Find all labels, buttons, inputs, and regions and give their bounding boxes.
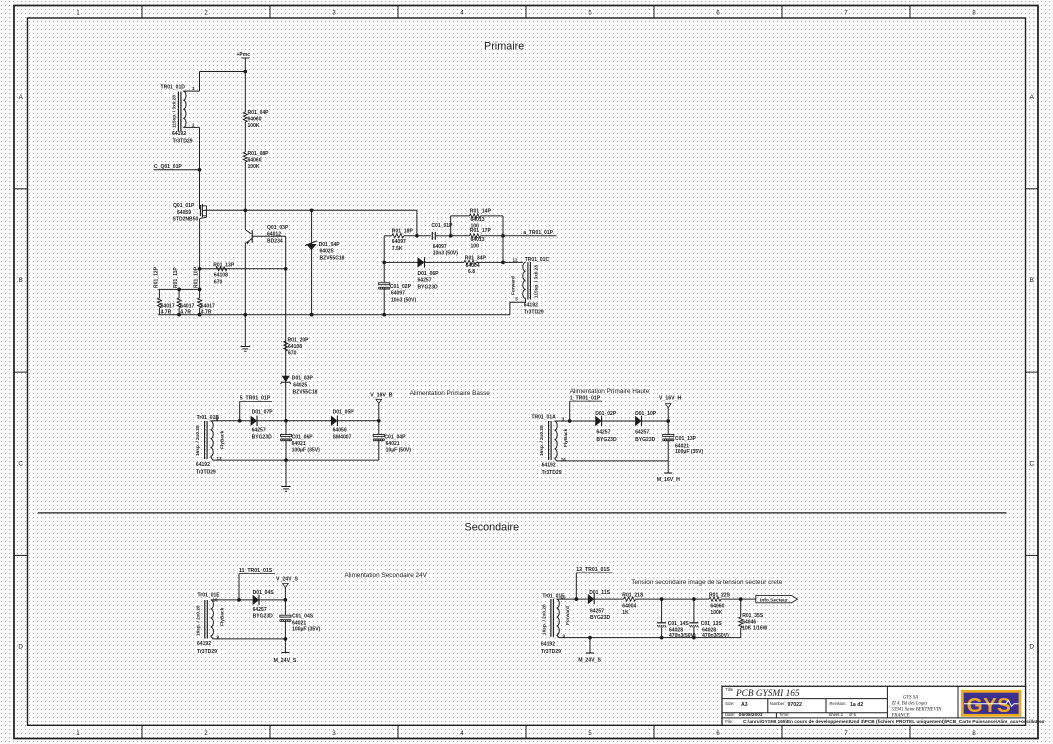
svg-text:6: 6 [716,9,720,16]
svg-text:C01_13S: C01_13S [701,621,723,627]
svg-text:100K: 100K [248,164,260,170]
svg-text:D01_07P: D01_07P [252,410,274,416]
svg-text:12_TR01_01S: 12_TR01_01S [576,567,610,573]
svg-text:100µF (35V): 100µF (35V) [292,448,320,454]
svg-text:D01_04P: D01_04P [319,242,341,248]
svg-text:GYS SA: GYS SA [903,695,918,700]
svg-text:64097: 64097 [433,244,447,250]
svg-text:2: 2 [204,9,208,16]
svg-text:16sp. / 2x0.28: 16sp. / 2x0.28 [195,425,201,456]
svg-text:6: 6 [716,730,720,737]
svg-text:64060: 64060 [248,117,262,123]
svg-text:M_24V_S: M_24V_S [578,658,601,664]
svg-text:100µF (35V): 100µF (35V) [292,627,320,633]
svg-text:Title: Title [725,687,733,692]
svg-text:64060: 64060 [248,158,262,164]
svg-text:B: B [19,277,23,284]
svg-text:10n3 (50V): 10n3 (50V) [433,251,459,257]
svg-text:16sp. / 2x0.28: 16sp. / 2x0.28 [539,425,545,456]
svg-text:1_TR01_01P: 1_TR01_01P [570,395,601,401]
svg-text:D01_03P: D01_03P [292,375,314,381]
svg-text:Time:: Time: [779,712,789,717]
svg-text:FRANCE: FRANCE [891,713,910,718]
svg-text:Sheet 2: Sheet 2 [829,712,844,717]
svg-text:D: D [1029,644,1034,651]
svg-text:16sp. / 2x0.28: 16sp. / 2x0.28 [195,605,201,636]
svg-text:C01_13P: C01_13P [675,436,697,442]
svg-text:115sp. / 3x0.28: 115sp. / 3x0.28 [533,265,539,298]
svg-text:R01_14P: R01_14P [470,209,492,215]
svg-text:R01_17P: R01_17P [470,228,492,234]
svg-text:C01_04S: C01_04S [292,613,314,619]
svg-text:10µF (50V): 10µF (50V) [386,448,412,454]
svg-text:100K: 100K [710,610,722,616]
svg-text:64004: 64004 [622,603,636,609]
svg-text:BYG23D: BYG23D [253,613,274,619]
svg-text:GYS: GYS [967,694,1012,717]
svg-text:Q01_03P: Q01_03P [267,225,289,231]
svg-text:C:\anru\GYSMI 165\En cours de: C:\anru\GYSMI 165\En cours de developpem… [743,719,1045,725]
svg-text:10K 1/16W: 10K 1/16W [742,626,767,632]
svg-text:10: 10 [561,594,567,599]
svg-text:100µF (35V): 100µF (35V) [675,449,703,455]
svg-text:64097: 64097 [392,239,406,245]
svg-text:TR01_01C: TR01_01C [525,257,550,263]
svg-text:R01_35S: R01_35S [742,613,764,619]
svg-text:R01_11P: R01_11P [173,267,179,288]
svg-text:D01_04S: D01_04S [253,590,275,596]
svg-text:1K: 1K [622,610,629,616]
svg-text:8: 8 [972,9,976,16]
svg-text:7: 7 [844,9,848,16]
svg-text:64025: 64025 [320,249,334,255]
svg-text:12: 12 [513,257,519,262]
svg-text:1: 1 [76,730,80,737]
svg-text:BZV55C18: BZV55C18 [320,255,345,261]
svg-text:10n3 (50V): 10n3 (50V) [391,297,417,303]
svg-text:64050: 64050 [333,428,347,434]
svg-text:TR01_01A: TR01_01A [531,414,556,420]
svg-text:1: 1 [76,9,80,16]
svg-text:Date:: Date: [725,712,735,717]
svg-text:64013: 64013 [471,237,485,243]
svg-text:64257: 64257 [635,429,649,435]
svg-text:64192: 64192 [524,303,538,309]
svg-text:6.8: 6.8 [468,269,475,275]
svg-text:ZI 4, Bd des Loges: ZI 4, Bd des Loges [892,701,928,706]
svg-text:a_TR01_01P: a_TR01_01P [523,230,553,236]
svg-text:1a d2: 1a d2 [850,702,863,708]
svg-text:100: 100 [471,243,480,249]
svg-text:R01_21S: R01_21S [622,593,644,599]
svg-text:64004: 64004 [466,263,480,269]
svg-text:64192: 64192 [541,642,555,648]
svg-text:R01_18P: R01_18P [392,229,414,235]
svg-text:D01_11S: D01_11S [589,590,610,596]
svg-text:5: 5 [588,9,592,16]
svg-text:64192: 64192 [542,463,556,469]
svg-text:Forward: Forward [510,276,516,295]
svg-text:STD2NB50: STD2NB50 [173,217,199,223]
svg-text:D01_10P: D01_10P [635,411,657,417]
svg-text:64192: 64192 [196,462,210,468]
svg-text:64060: 64060 [710,603,724,609]
svg-text:Primaire: Primaire [484,40,524,52]
svg-text:C_Q01_01P: C_Q01_01P [154,164,182,170]
svg-text:64021: 64021 [386,441,400,447]
svg-text:BD234: BD234 [267,238,283,244]
svg-text:64108: 64108 [214,273,228,279]
svg-text:Alimentation Secondaire 24V: Alimentation Secondaire 24V [345,572,428,579]
svg-text:Number:: Number: [770,701,786,706]
svg-text:5: 5 [588,730,592,737]
svg-text:C01_01P: C01_01P [431,223,453,229]
svg-text:R01_20P: R01_20P [288,338,310,344]
svg-text:D01_06P: D01_06P [418,271,440,277]
svg-text:+Pmc: +Pmc [237,52,251,58]
svg-text:M_16V_H: M_16V_H [657,477,680,483]
svg-text:R01_34P: R01_34P [465,256,487,262]
svg-text:TR01_01D: TR01_01D [161,85,186,91]
svg-text:Tr3TD29: Tr3TD29 [541,649,561,655]
svg-text:11_TR01_01S: 11_TR01_01S [239,568,273,574]
svg-text:97022: 97022 [788,702,803,708]
svg-text:7: 7 [844,730,848,737]
svg-text:SM4007: SM4007 [333,435,352,441]
svg-text:64257: 64257 [590,609,604,615]
svg-text:Forward: Forward [565,606,571,625]
svg-text:53941 Saint BERTHEVIN: 53941 Saint BERTHEVIN [892,707,943,712]
svg-text:64108: 64108 [288,344,302,350]
svg-text:PCB GYSMI 165: PCB GYSMI 165 [735,689,800,699]
svg-text:Alimentation Primaire Haute: Alimentation Primaire Haute [570,388,650,395]
svg-text:5_TR01_01P: 5_TR01_01P [240,396,271,402]
svg-text:Tr3TD29: Tr3TD29 [197,649,217,655]
svg-text:Tr3TD29: Tr3TD29 [524,310,544,316]
svg-text:64257: 64257 [253,607,267,613]
svg-text:64192: 64192 [172,131,186,137]
svg-text:R01_04P: R01_04P [248,110,270,116]
svg-text:M_24V_S: M_24V_S [274,658,297,664]
svg-text:B: B [1030,277,1034,284]
svg-text:FlyBack: FlyBack [220,430,226,449]
svg-text:Tr3TD29: Tr3TD29 [173,138,193,144]
svg-text:of 6: of 6 [849,712,857,717]
svg-text:3: 3 [332,9,336,16]
svg-text:C01_02P: C01_02P [390,284,412,290]
svg-text:7.5K: 7.5K [392,246,403,252]
svg-text:3: 3 [332,730,336,737]
svg-text:V_24V_S: V_24V_S [276,577,298,583]
svg-text:D: D [18,644,23,651]
svg-text:BYG23D: BYG23D [252,435,273,441]
svg-text:R01_12P: R01_12P [153,266,159,288]
svg-text:Alimentation Primaire Basse: Alimentation Primaire Basse [410,390,491,397]
svg-text:Size:: Size: [725,701,734,706]
svg-text:Secondaire: Secondaire [465,522,520,534]
svg-text:C01_14S: C01_14S [668,621,690,627]
svg-text:115sp. / 3x0.28: 115sp. / 3x0.28 [172,95,178,128]
svg-text:C01_06P: C01_06P [292,434,314,440]
svg-text:Q01_01P: Q01_01P [173,203,195,209]
svg-text:V_16V_B: V_16V_B [370,392,392,398]
svg-text:64192: 64192 [197,641,211,647]
svg-text:64025: 64025 [293,383,307,389]
svg-text:FlyBack: FlyBack [220,607,226,626]
svg-text:670: 670 [288,350,297,356]
svg-text:Tr3TD29: Tr3TD29 [196,469,216,475]
svg-text:D01_02P: D01_02P [595,411,617,417]
svg-text:BYG23D: BYG23D [418,285,439,291]
svg-text:Tr3TD29: Tr3TD29 [542,470,562,476]
svg-text:Revision:: Revision: [829,701,846,706]
svg-text:C01_04P: C01_04P [384,434,406,440]
svg-text:64257: 64257 [418,278,432,284]
svg-text:C: C [18,460,23,467]
svg-text:8: 8 [972,730,976,737]
svg-text:64021: 64021 [292,441,306,447]
svg-text:64013: 64013 [471,217,485,223]
svg-text:4: 4 [460,9,464,16]
svg-text:06/08/2003: 06/08/2003 [739,712,763,718]
svg-text:R01_22S: R01_22S [709,593,731,599]
svg-text:64257: 64257 [596,429,610,435]
svg-text:R01_10P: R01_10P [193,266,199,288]
svg-text:64059: 64059 [177,210,191,216]
svg-text:BYG23D: BYG23D [590,615,611,621]
svg-text:16sp. / 2x0.28: 16sp. / 2x0.28 [542,604,548,635]
svg-text:R01_08P: R01_08P [248,151,270,157]
svg-text:64257: 64257 [252,428,266,434]
svg-text:R01_13P: R01_13P [213,262,235,268]
svg-text:4: 4 [460,730,464,737]
svg-text:64097: 64097 [391,291,405,297]
svg-text:2: 2 [204,730,208,737]
svg-text:FlyBack: FlyBack [563,428,569,447]
svg-text:16: 16 [561,457,567,462]
svg-text:670: 670 [214,279,223,285]
svg-text:BYG23D: BYG23D [596,437,617,443]
svg-text:A3: A3 [741,702,748,708]
svg-text:V_16V_H: V_16V_H [659,395,681,401]
svg-text:Tension secondaire image de la: Tension secondaire image de la tension s… [631,579,782,586]
svg-text:100K: 100K [248,123,260,129]
svg-text:C: C [1029,460,1034,467]
svg-text:D01_05P: D01_05P [333,410,355,416]
svg-text:BYG23D: BYG23D [635,437,656,443]
svg-text:BZV55C18: BZV55C18 [293,389,318,395]
svg-text:File:: File: [725,719,733,724]
svg-text:Info Secteur: Info Secteur [760,597,788,603]
